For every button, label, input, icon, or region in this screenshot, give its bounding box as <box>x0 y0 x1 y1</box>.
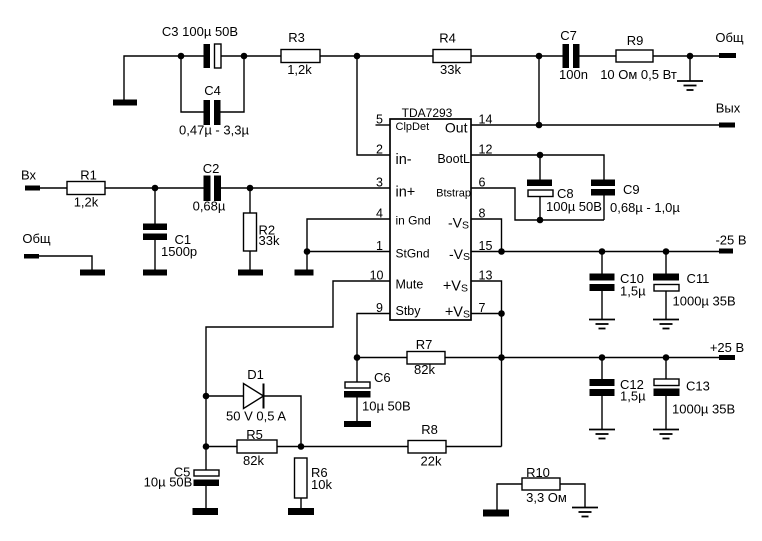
svg-text:R7: R7 <box>416 337 433 352</box>
svg-text:R1: R1 <box>80 168 97 183</box>
ground <box>295 270 314 276</box>
svg-text:R9: R9 <box>627 33 644 48</box>
node: C6 junction <box>354 354 361 361</box>
svg-text:Out: Out <box>445 120 468 136</box>
ground <box>80 270 105 276</box>
terminal Общ top <box>715 30 744 58</box>
node: out tap junction <box>536 53 543 60</box>
svg-text:in Gnd: in Gnd <box>396 214 431 228</box>
wire: R3 to R4 <box>320 55 433 57</box>
wire: ground stub to C3 left node <box>124 56 204 100</box>
svg-text:Stby: Stby <box>396 304 422 318</box>
wire: pin 13 to +Vs <box>471 281 502 314</box>
wire: +Vs vertical to R8 row <box>501 314 503 447</box>
svg-text:50 V 0,5 A: 50 V 0,5 A <box>226 409 286 424</box>
svg-text:C9: C9 <box>623 182 640 197</box>
resistor R8 <box>408 422 502 469</box>
svg-text:Mute: Mute <box>396 278 424 292</box>
wire: pin 12 BootL row <box>471 155 604 180</box>
pin 12 number <box>479 143 493 157</box>
terminal Вх <box>21 168 40 191</box>
svg-text:0,68µ - 1,0µ: 0,68µ - 1,0µ <box>610 200 680 215</box>
svg-text:10µ 50В: 10µ 50В <box>362 399 411 414</box>
wire: pin 9 Stby branch <box>357 314 390 358</box>
wire: pin 8 to -Vs rail <box>471 219 502 252</box>
terminal -25 В <box>715 233 746 254</box>
ground <box>238 270 263 276</box>
ground <box>143 270 167 276</box>
resistor R9 <box>600 33 677 82</box>
svg-text:-25 В: -25 В <box>715 233 746 248</box>
svg-text:1500p: 1500p <box>161 244 197 259</box>
svg-text:33k: 33k <box>440 62 461 77</box>
svg-text:R4: R4 <box>439 31 456 46</box>
node: output ground junction <box>687 53 694 60</box>
svg-text:22k: 22k <box>421 454 442 469</box>
resistor R10 <box>497 465 585 510</box>
resistor R7 <box>357 337 502 377</box>
pin 6 number <box>479 176 486 190</box>
svg-text:4: 4 <box>376 207 383 221</box>
svg-text:5: 5 <box>376 113 383 127</box>
node: C12 junction <box>599 354 606 361</box>
svg-text:in-: in- <box>396 152 412 168</box>
pin 13 number <box>479 269 493 283</box>
svg-text:in+: in+ <box>396 185 416 201</box>
svg-text:R10: R10 <box>526 465 550 480</box>
wire: pin 1 StGnd <box>307 251 390 253</box>
wire: Вх to R1 <box>40 187 67 189</box>
ground <box>653 430 679 439</box>
capacitor C7 <box>559 28 588 82</box>
pin 5 stub <box>376 113 391 127</box>
pin 7 number <box>479 301 486 315</box>
capacitor C13 <box>654 358 736 430</box>
node: R2 junction <box>247 185 254 192</box>
svg-text:10 Ом 0,5 Вт: 10 Ом 0,5 Вт <box>600 67 677 82</box>
ground <box>572 508 598 517</box>
svg-text:100µ 50В: 100µ 50В <box>546 199 602 214</box>
svg-text:C4: C4 <box>204 83 221 98</box>
svg-text:C3 100µ 50В: C3 100µ 50В <box>162 24 238 39</box>
svg-text:C13: C13 <box>686 379 710 394</box>
node: C8 bottom junction <box>537 217 544 224</box>
ground <box>193 508 219 515</box>
capacitor C2 <box>193 161 226 214</box>
wire: down to earth <box>689 56 691 81</box>
svg-text:1: 1 <box>376 239 383 253</box>
diode D1 <box>206 367 301 447</box>
ground <box>653 320 679 329</box>
svg-text:C6: C6 <box>374 370 391 385</box>
node: +Vs pins junction <box>498 310 505 317</box>
wire: R4 to C7 <box>471 55 563 57</box>
wire: feedback node to pin 2 <box>357 56 390 155</box>
svg-text:TDA7293: TDA7293 <box>402 106 453 120</box>
svg-text:2: 2 <box>376 143 383 157</box>
node: C3 left junction <box>178 53 185 60</box>
wire: pin 4 in Gnd to ground <box>307 219 390 270</box>
wire: pin 7 <box>471 313 502 315</box>
capacitor C12 <box>590 358 647 430</box>
node: C13 junction <box>663 354 670 361</box>
svg-text:C11: C11 <box>687 271 710 286</box>
capacitor C5 <box>144 447 219 509</box>
node: +Vs rail junction <box>498 354 505 361</box>
op-amp U1 TDA7293 <box>390 106 471 321</box>
wire: C2 to pin 3 <box>221 187 390 189</box>
wire: R1 to C2 <box>105 187 204 189</box>
capacitor C9 <box>591 180 680 221</box>
svg-text:1,5µ: 1,5µ <box>620 284 646 299</box>
svg-text:BootL: BootL <box>437 152 470 166</box>
node: StGnd junction <box>304 248 311 255</box>
terminal Вых <box>716 101 741 128</box>
node: C3 right junction <box>241 53 248 60</box>
svg-text:33k: 33k <box>259 233 280 248</box>
svg-text:ClpDet: ClpDet <box>396 121 430 133</box>
svg-text:Общ: Общ <box>715 30 744 45</box>
capacitor C10 <box>590 252 647 320</box>
svg-text:3,3 Ом: 3,3 Ом <box>526 490 567 505</box>
ground <box>483 510 509 517</box>
wire: pin 6 Btstrap loop <box>471 188 604 220</box>
svg-text:1000µ 35В: 1000µ 35В <box>673 294 736 309</box>
svg-text:0,47µ - 3,3µ: 0,47µ - 3,3µ <box>179 123 249 138</box>
wire: out node tap down to out row <box>538 56 540 125</box>
svg-text:10µ 50В: 10µ 50В <box>144 475 193 490</box>
pin 3 number <box>376 176 383 190</box>
terminal Общ left <box>22 231 51 259</box>
wire: R9 to terminal <box>653 55 719 57</box>
capacitor C11 <box>653 252 736 320</box>
resistor R5 <box>206 427 408 468</box>
node: R6 junction <box>298 443 305 450</box>
capacitor C1 <box>143 188 197 270</box>
wire: +25V rail <box>502 357 720 359</box>
svg-text:+25 В: +25 В <box>710 340 744 355</box>
node: C10 junction <box>599 248 606 255</box>
capacitor C8 <box>527 155 602 220</box>
ground <box>288 508 314 515</box>
wire: pin 14 Out to Вых terminal <box>471 124 719 126</box>
resistor R6 <box>295 458 333 508</box>
node: out row junction <box>536 122 543 129</box>
pin 10 number <box>370 269 384 283</box>
svg-text:Btstrap: Btstrap <box>436 188 471 200</box>
node: C11 junction <box>663 248 670 255</box>
terminal +25 В <box>710 340 744 360</box>
svg-text:82k: 82k <box>414 362 435 377</box>
svg-text:C2: C2 <box>203 161 220 176</box>
ground <box>113 100 137 106</box>
svg-text:StGnd: StGnd <box>396 247 430 261</box>
pin 9 number <box>376 301 383 315</box>
node: feedback junction <box>354 53 361 60</box>
svg-text:Вх: Вх <box>21 168 37 183</box>
ground <box>589 430 615 439</box>
capacitor C3 <box>162 24 238 68</box>
svg-text:82k: 82k <box>243 453 264 468</box>
svg-text:1,2k: 1,2k <box>74 195 99 210</box>
node: C1 junction <box>152 185 159 192</box>
pin 14 number <box>479 113 493 127</box>
capacitor C6 <box>344 358 411 422</box>
svg-text:1,2k: 1,2k <box>287 62 312 77</box>
node: C8 top junction <box>537 152 544 159</box>
capacitor C4 with branch wires <box>179 56 249 138</box>
wire: Общ to ground <box>39 256 92 270</box>
pin 8 number <box>479 207 486 221</box>
ground <box>677 81 703 90</box>
node: D1 anode junction <box>203 393 210 400</box>
node: R5 left junction <box>203 443 210 450</box>
svg-text:100n: 100n <box>559 67 588 82</box>
svg-text:D1: D1 <box>247 367 264 382</box>
wire: C7 to R9 <box>580 55 617 57</box>
ground <box>344 421 371 427</box>
resistor R3 <box>281 30 320 77</box>
resistor R2 <box>244 188 280 270</box>
pin 2 number <box>376 143 383 157</box>
svg-text:1,5µ: 1,5µ <box>620 389 646 404</box>
wire: C3 to R3 <box>221 55 281 57</box>
ground <box>589 320 615 329</box>
resistor R4 <box>433 31 471 78</box>
svg-text:R5: R5 <box>246 427 263 442</box>
svg-text:C7: C7 <box>560 28 577 43</box>
svg-text:R3: R3 <box>288 30 305 45</box>
pin 1 number <box>376 239 383 253</box>
svg-text:1000µ 35В: 1000µ 35В <box>672 402 735 417</box>
svg-text:3: 3 <box>376 176 383 190</box>
svg-text:R8: R8 <box>421 422 438 437</box>
svg-text:Общ: Общ <box>22 231 51 246</box>
wire: pin 10 Mute branch <box>206 281 390 447</box>
node: -Vs junction <box>498 248 505 255</box>
svg-text:10k: 10k <box>311 477 332 492</box>
svg-text:Вых: Вых <box>716 101 741 116</box>
svg-text:0,68µ: 0,68µ <box>193 199 226 214</box>
pin 15 number <box>479 239 493 253</box>
pin 4 number <box>376 207 383 221</box>
wire: pin 15 -25V rail <box>471 251 719 253</box>
resistor R1 <box>67 168 105 210</box>
